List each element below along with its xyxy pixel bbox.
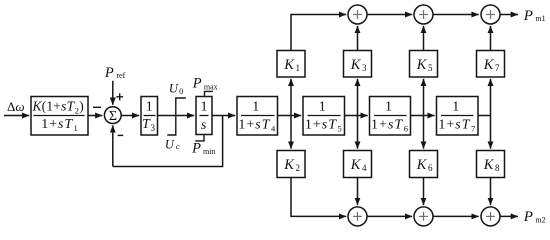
svg-text:1: 1 <box>319 99 326 114</box>
svg-text:1: 1 <box>201 99 208 114</box>
svg-text:s: s <box>201 118 207 133</box>
svg-text:1: 1 <box>452 99 459 114</box>
svg-text:Δω: Δω <box>7 99 25 114</box>
svg-text:Σ: Σ <box>109 109 117 124</box>
svg-text:1: 1 <box>385 99 392 114</box>
svg-text:1: 1 <box>146 99 153 114</box>
svg-text:1: 1 <box>252 99 259 114</box>
